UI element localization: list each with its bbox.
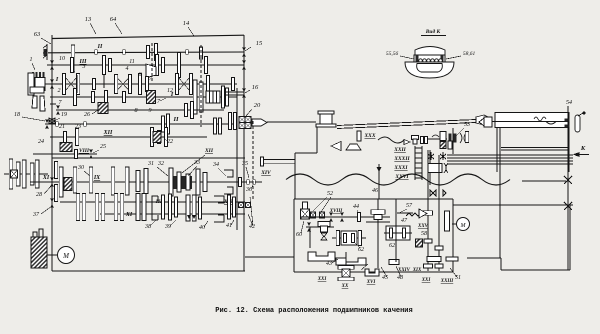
svg-text:XXXI: XXXI [393, 165, 408, 171]
svg-text:8: 8 [135, 108, 138, 114]
svg-text:34: 34 [212, 161, 219, 168]
svg-text:36: 36 [245, 187, 252, 193]
svg-text:XXVI: XXVI [394, 174, 409, 180]
svg-text:30: 30 [77, 165, 84, 171]
svg-text:XXI: XXI [317, 277, 328, 282]
svg-text:6: 6 [139, 72, 142, 78]
svg-text:VIII: VIII [79, 148, 90, 154]
svg-text:53: 53 [464, 122, 470, 128]
svg-text:XII: XII [204, 148, 214, 154]
svg-text:10: 10 [59, 56, 65, 62]
svg-text:55,56: 55,56 [386, 51, 399, 57]
svg-text:XII: XII [103, 130, 113, 136]
svg-text:38: 38 [144, 224, 151, 230]
svg-text:21: 21 [59, 124, 65, 130]
svg-text:45: 45 [382, 274, 388, 281]
svg-text:XXIV: XXIV [397, 268, 411, 273]
svg-text:4: 4 [126, 65, 129, 72]
svg-text:44: 44 [353, 203, 359, 210]
svg-text:37: 37 [32, 212, 40, 218]
svg-text:II: II [172, 116, 179, 123]
svg-text:47: 47 [401, 217, 408, 224]
svg-text:24: 24 [38, 138, 44, 145]
svg-text:II: II [97, 44, 103, 50]
svg-text:14: 14 [183, 20, 190, 27]
svg-text:XIX: XIX [412, 268, 422, 273]
svg-text:20: 20 [254, 102, 261, 109]
svg-text:XIV: XIV [260, 170, 272, 176]
svg-text:13: 13 [85, 16, 92, 23]
svg-text:58,61: 58,61 [463, 51, 476, 57]
svg-text:IX: IX [93, 175, 101, 181]
svg-text:64: 64 [110, 16, 117, 23]
svg-text:XXII: XXII [393, 147, 406, 153]
svg-text:XVI: XVI [366, 280, 377, 285]
svg-text:63: 63 [34, 31, 41, 38]
svg-text:25: 25 [100, 144, 106, 150]
svg-text:XI: XI [125, 212, 133, 218]
svg-text:39: 39 [164, 224, 171, 230]
svg-text:40: 40 [199, 224, 205, 231]
svg-text:I: I [170, 91, 174, 98]
svg-text:62: 62 [389, 243, 395, 249]
svg-text:31: 31 [147, 161, 154, 167]
svg-text:1: 1 [30, 57, 33, 63]
svg-text:XX: XX [341, 284, 349, 289]
svg-text:52: 52 [327, 191, 333, 197]
svg-text:9: 9 [149, 108, 152, 114]
svg-text:XXI: XXI [421, 278, 432, 283]
svg-text:XXIII: XXIII [440, 279, 455, 284]
svg-text:28: 28 [36, 192, 42, 198]
svg-text:54: 54 [566, 99, 572, 106]
svg-text:Рис. 12. Схема расположения по: Рис. 12. Схема расположения подшипников … [215, 307, 412, 315]
svg-text:41: 41 [226, 222, 232, 229]
svg-text:3: 3 [82, 64, 86, 70]
svg-text:11: 11 [129, 59, 135, 65]
svg-text:I: I [55, 76, 59, 83]
svg-text:22: 22 [167, 139, 173, 145]
svg-text:15: 15 [256, 40, 263, 47]
svg-text:62: 62 [358, 247, 364, 253]
svg-text:58: 58 [421, 231, 427, 237]
svg-text:M: M [460, 223, 467, 229]
svg-text:43: 43 [326, 260, 332, 267]
svg-text:32: 32 [157, 161, 164, 167]
svg-text:57: 57 [406, 203, 413, 209]
svg-text:XI: XI [42, 175, 50, 181]
svg-text:46: 46 [372, 187, 378, 194]
svg-text:M: M [62, 252, 70, 260]
svg-text:18: 18 [14, 112, 20, 118]
svg-text:2: 2 [58, 88, 61, 94]
svg-text:19: 19 [61, 112, 67, 118]
svg-text:26: 26 [84, 112, 90, 118]
svg-text:K: K [580, 145, 586, 152]
svg-text:XXV: XXV [417, 224, 429, 229]
svg-text:33: 33 [193, 160, 200, 166]
svg-text:XXX: XXX [363, 133, 375, 139]
svg-text:35: 35 [241, 161, 248, 167]
svg-text:Вид К: Вид К [425, 28, 441, 35]
svg-text:XXXII: XXXII [393, 156, 410, 162]
svg-text:16: 16 [252, 84, 259, 91]
